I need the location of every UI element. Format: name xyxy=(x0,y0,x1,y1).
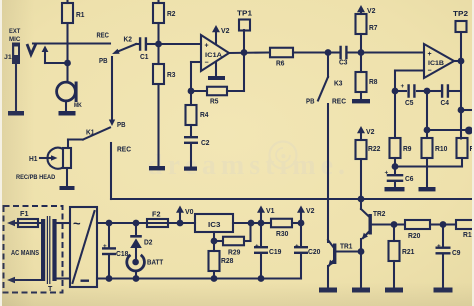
node IC3 adj xyxy=(213,232,215,241)
resistor R7 xyxy=(357,5,365,12)
resistor R6 xyxy=(270,48,293,58)
svg-text:C19: C19 xyxy=(269,249,282,256)
svg-text:IC3: IC3 xyxy=(208,222,221,229)
record/playback head H1 xyxy=(47,148,63,169)
svg-text:V0: V0 xyxy=(185,209,194,216)
resistor R2 xyxy=(157,0,159,3)
watermark dreamstime xyxy=(147,142,350,182)
svg-text:K3: K3 xyxy=(334,81,343,88)
resistor R28 xyxy=(213,241,215,251)
ground C2 xyxy=(184,167,197,171)
resistor R3 xyxy=(153,64,164,84)
svg-text:MK: MK xyxy=(74,102,82,109)
svg-text:C18: C18 xyxy=(116,251,129,258)
svg-text:R30: R30 xyxy=(276,231,289,238)
svg-text:R4: R4 xyxy=(200,112,209,119)
svg-text:PB: PB xyxy=(99,58,108,65)
svg-text:dreamstime.: dreamstime. xyxy=(147,150,350,181)
node IC1B output xyxy=(458,58,465,65)
svg-text:REC: REC xyxy=(332,99,346,106)
svg-text:V2: V2 xyxy=(367,8,376,15)
capacitor C4 xyxy=(427,90,440,92)
svg-text:C1: C1 xyxy=(140,54,149,61)
svg-text:TR2: TR2 xyxy=(373,211,385,218)
wire to IC1B + xyxy=(361,51,424,53)
svg-text:V2: V2 xyxy=(221,28,230,35)
mains arrow bottom xyxy=(7,277,15,284)
svg-text:REC: REC xyxy=(97,33,109,40)
node mic junction xyxy=(64,60,71,67)
resistor R4 xyxy=(190,91,192,105)
wire to microphone xyxy=(66,44,68,83)
wire IC3 output xyxy=(233,222,251,224)
svg-text:C6: C6 xyxy=(405,176,414,183)
supply V2 IC1A xyxy=(212,25,220,32)
ground R8 xyxy=(352,99,370,103)
node C3 R7 xyxy=(358,49,365,56)
wire R22 to TR2 xyxy=(360,159,362,199)
wire TR1 base xyxy=(337,250,362,252)
node R20 C9 xyxy=(440,221,447,228)
wire C5-C4 node down xyxy=(426,91,428,130)
ground J1 xyxy=(8,111,24,116)
resistor R21 xyxy=(393,225,395,242)
resistor R30 xyxy=(261,222,271,224)
ground C9 xyxy=(434,288,453,293)
svg-text:D2: D2 xyxy=(144,240,153,247)
supply node V1 xyxy=(258,220,265,227)
op-amp IC1B xyxy=(424,44,454,78)
svg-text:TP1: TP1 xyxy=(237,11,252,18)
svg-text:C5: C5 xyxy=(405,100,414,107)
wire IC1A feedback xyxy=(191,61,201,63)
transformer T xyxy=(41,219,45,281)
node R10 top xyxy=(424,127,431,134)
svg-text:+: + xyxy=(295,243,299,250)
wire R1 to input rail xyxy=(66,23,68,44)
ground H1 xyxy=(60,186,75,190)
node output right edge xyxy=(465,127,473,135)
battery BATT xyxy=(127,255,145,271)
svg-text:−: − xyxy=(205,60,209,67)
node R6 C3 xyxy=(325,49,332,56)
svg-text:+: + xyxy=(103,243,107,250)
wire bridge output top xyxy=(97,222,195,224)
node C5 C4 xyxy=(424,88,431,95)
regulator IC3 xyxy=(195,214,233,232)
capacitor C2 xyxy=(190,125,192,136)
diode D2 xyxy=(133,220,140,227)
svg-text:+: + xyxy=(385,170,389,177)
capacitor C5 xyxy=(395,90,406,92)
node input of IC1A xyxy=(155,41,162,48)
svg-text:TR1: TR1 xyxy=(340,244,352,251)
ground TR2 emitter xyxy=(352,288,370,293)
svg-text:IC1B: IC1B xyxy=(428,60,444,67)
node R29 top xyxy=(248,220,255,227)
wire TR2 base xyxy=(372,223,394,225)
svg-text:BATT: BATT xyxy=(147,260,164,267)
node TR1 base TR2 emitter xyxy=(358,248,365,255)
svg-text:R9: R9 xyxy=(403,146,412,153)
svg-text:R6: R6 xyxy=(276,61,285,68)
jack contact V xyxy=(27,44,36,55)
svg-text:R8: R8 xyxy=(369,79,378,86)
wire R11 bottom xyxy=(461,158,463,167)
svg-text:R1: R1 xyxy=(76,12,85,19)
svg-text:+: + xyxy=(437,243,441,250)
jack break contact arrow xyxy=(42,46,49,53)
wire K2 PB to K1 PB xyxy=(111,57,113,120)
svg-text:R21: R21 xyxy=(402,249,415,256)
svg-text:C20: C20 xyxy=(308,249,321,256)
svg-text:C4: C4 xyxy=(441,100,450,107)
node TR2 collector rail xyxy=(358,196,365,203)
resistor R19 xyxy=(443,223,456,225)
ground IC1A xyxy=(215,62,217,76)
resistor R10 xyxy=(426,130,428,138)
svg-text:+: + xyxy=(428,51,432,58)
svg-text:PB: PB xyxy=(306,99,315,106)
wire input rail REC xyxy=(33,42,110,44)
svg-text:C9: C9 xyxy=(452,250,461,257)
svg-text:R7: R7 xyxy=(369,25,378,32)
svg-text:REC: REC xyxy=(117,147,131,154)
capacitor C1 xyxy=(136,43,139,45)
svg-text:IC1A: IC1A xyxy=(205,52,222,59)
ground TR1 xyxy=(319,288,337,293)
wire IC1B output down xyxy=(460,61,462,139)
svg-text:C2: C2 xyxy=(201,140,210,147)
svg-text:PB: PB xyxy=(117,122,126,129)
svg-text:R2: R2 xyxy=(167,11,176,18)
bridge rectifier xyxy=(70,207,97,287)
capacitor C6 xyxy=(394,167,396,175)
capacitor C20 xyxy=(300,223,302,246)
node TR2 base xyxy=(391,221,398,228)
supply node V0 xyxy=(177,220,184,227)
resistor R9 xyxy=(394,91,396,138)
wire secondary to bridge xyxy=(57,222,70,224)
svg-text:R20: R20 xyxy=(408,233,421,240)
wire output tap xyxy=(458,107,465,114)
svg-text:C3: C3 xyxy=(339,60,348,67)
wire bridge output bottom xyxy=(97,277,301,279)
op-amp IC1A xyxy=(201,35,229,71)
svg-text:R29: R29 xyxy=(228,250,241,257)
wire main lower rail xyxy=(111,198,474,200)
switch K3 xyxy=(327,53,329,78)
svg-text:V1: V1 xyxy=(266,208,275,215)
capacitor C9 xyxy=(442,225,444,247)
node R9 C6 xyxy=(392,163,399,170)
resistor R22 xyxy=(357,126,365,133)
supply node V2 xyxy=(298,220,305,227)
svg-text:V2: V2 xyxy=(306,208,315,215)
svg-text:R5: R5 xyxy=(210,99,219,106)
mains arrow top xyxy=(7,220,15,227)
svg-text:R22: R22 xyxy=(368,146,381,153)
svg-text:V2: V2 xyxy=(366,129,375,136)
resistor R8 xyxy=(356,72,367,92)
resistor R1 xyxy=(66,0,68,3)
ground C6 xyxy=(385,187,405,191)
svg-text:K2: K2 xyxy=(124,37,133,44)
svg-text:−: − xyxy=(428,68,432,75)
node C5 left xyxy=(392,88,399,95)
wire K1 common to head xyxy=(68,138,83,140)
wire IC1B feedback xyxy=(395,69,424,71)
resistor R20 xyxy=(394,223,405,225)
resistor R11 xyxy=(457,138,468,158)
svg-text:+: + xyxy=(401,83,405,90)
ground R10 xyxy=(419,187,436,191)
svg-text:R28: R28 xyxy=(221,258,234,265)
svg-text:TP2: TP2 xyxy=(453,11,468,18)
microphone MK xyxy=(57,82,76,101)
svg-text:R10: R10 xyxy=(435,146,448,153)
switch K1 xyxy=(109,120,115,127)
svg-text:+: + xyxy=(255,243,259,250)
resistor R29 xyxy=(214,240,223,242)
capacitor C3 xyxy=(328,51,340,53)
node IC1A output xyxy=(241,49,248,56)
ground R21 xyxy=(385,288,403,293)
wire to IC1A + xyxy=(159,43,202,45)
wire K3 REC to TR1 collector xyxy=(327,104,329,242)
ground R3 xyxy=(149,166,165,170)
capacitor C19 xyxy=(260,223,262,246)
ground MK xyxy=(59,111,76,116)
photo edge right xyxy=(472,0,474,306)
mains box dashed xyxy=(4,206,63,293)
svg-text:R3: R3 xyxy=(167,72,176,79)
capacitor C18 xyxy=(106,220,113,227)
resistor R5 xyxy=(191,90,207,92)
svg-text:+: + xyxy=(205,43,209,50)
svg-text:~: ~ xyxy=(73,216,81,231)
photo edge left xyxy=(0,0,2,306)
wire IC1A output xyxy=(229,51,268,54)
svg-text:F2: F2 xyxy=(152,212,161,219)
node feedback IC1A xyxy=(188,88,195,95)
